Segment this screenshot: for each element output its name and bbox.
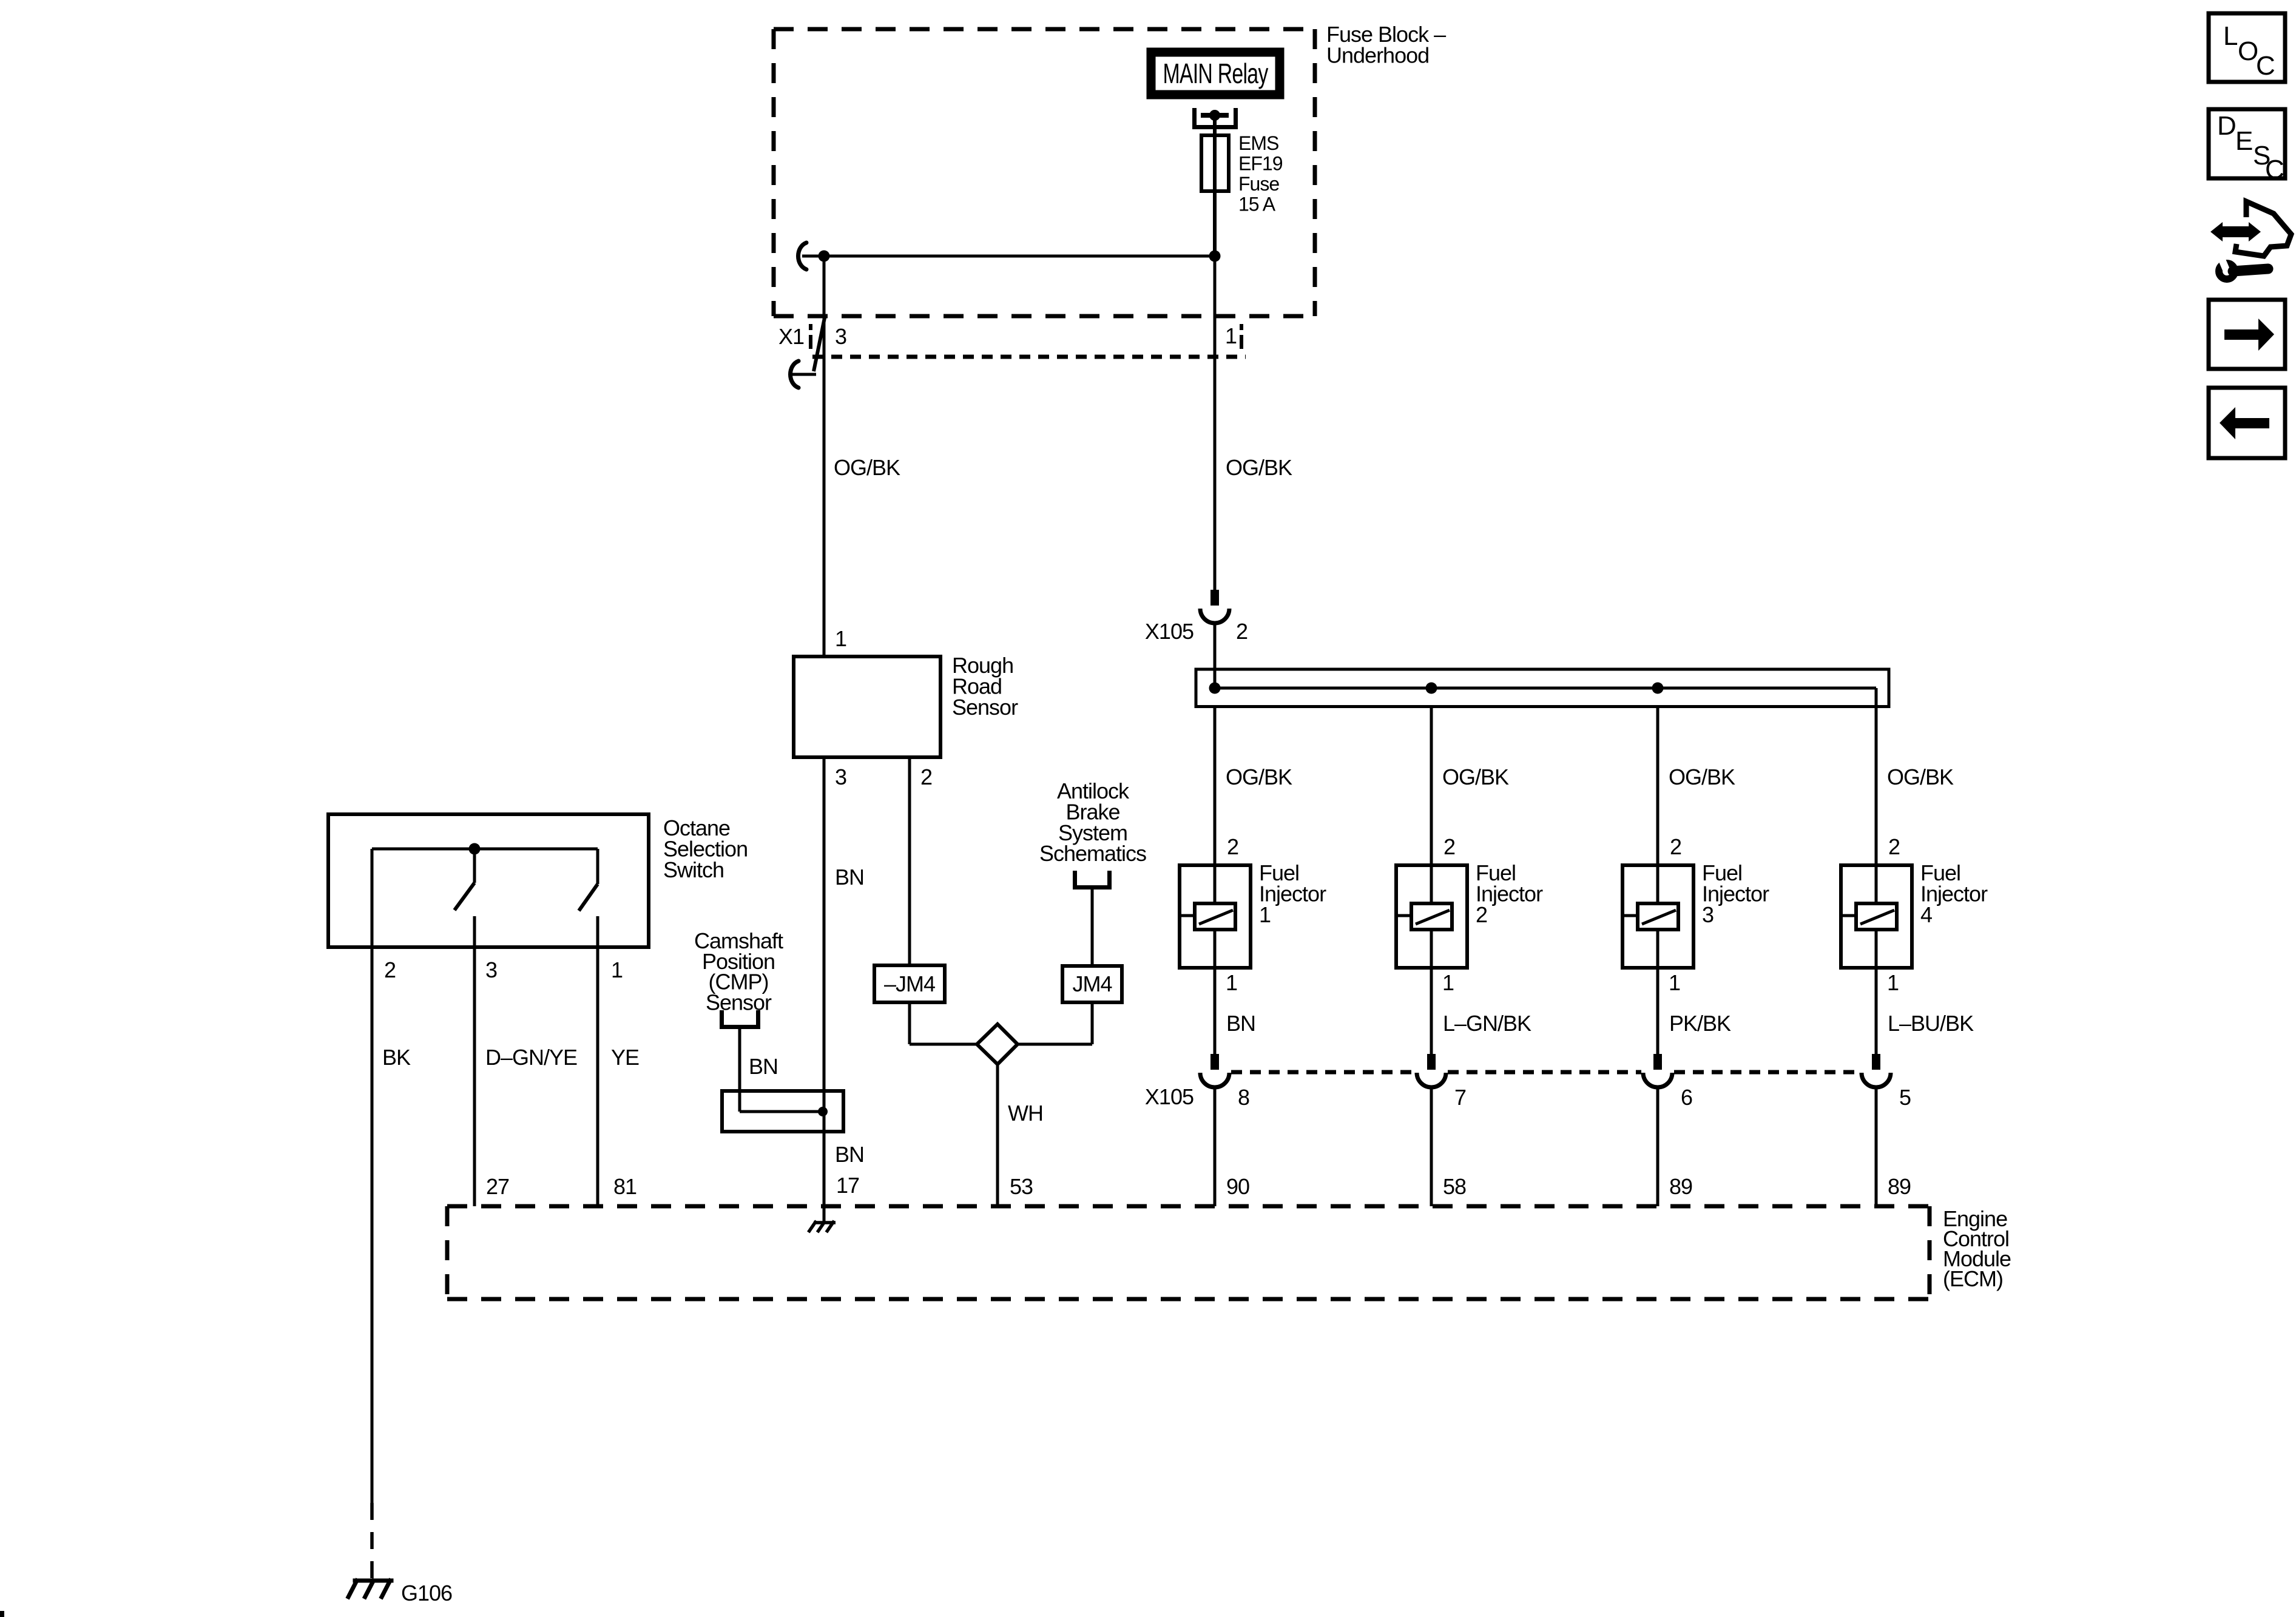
svg-text:OG/BK: OG/BK — [1226, 765, 1292, 789]
svg-text:89: 89 — [1888, 1174, 1911, 1199]
svg-text:3: 3 — [835, 765, 846, 789]
svg-text:EMS: EMS — [1238, 132, 1278, 154]
svg-text:X1: X1 — [778, 324, 804, 349]
svg-text:7: 7 — [1454, 1085, 1466, 1110]
svg-text:YE: YE — [611, 1045, 639, 1070]
svg-text:2: 2 — [384, 957, 396, 982]
svg-text:Sensor: Sensor — [706, 990, 772, 1014]
svg-text:L: L — [2223, 21, 2238, 51]
svg-text:OG/BK: OG/BK — [1226, 455, 1292, 480]
svg-text:89: 89 — [1669, 1174, 1692, 1199]
svg-text:17: 17 — [836, 1173, 859, 1198]
svg-text:6: 6 — [1681, 1085, 1692, 1110]
svg-text:OG/BK: OG/BK — [1669, 765, 1735, 789]
svg-text:C: C — [2265, 155, 2284, 184]
svg-text:O: O — [2238, 36, 2258, 66]
svg-text:2: 2 — [1443, 834, 1455, 859]
svg-text:C: C — [2256, 51, 2275, 81]
svg-text:5: 5 — [1899, 1085, 1911, 1110]
svg-text:JM4: JM4 — [1072, 971, 1112, 996]
svg-text:Sensor: Sensor — [952, 695, 1018, 720]
svg-text:4: 4 — [1920, 902, 1932, 927]
svg-text:OG/BK: OG/BK — [1442, 765, 1509, 789]
svg-text:3: 3 — [1702, 902, 1714, 927]
svg-text:–JM4: –JM4 — [884, 971, 935, 996]
svg-text:2: 2 — [920, 765, 932, 789]
svg-text:X105: X105 — [1145, 1084, 1194, 1109]
svg-text:1: 1 — [1442, 970, 1454, 995]
svg-text:1: 1 — [1225, 323, 1237, 348]
svg-text:X105: X105 — [1145, 619, 1194, 644]
svg-text:BK: BK — [382, 1045, 411, 1070]
svg-text:2: 2 — [1476, 902, 1487, 927]
svg-text:D–GN/YE: D–GN/YE — [485, 1045, 577, 1070]
svg-text:OG/BK: OG/BK — [834, 455, 900, 480]
svg-text:PK/BK: PK/BK — [1669, 1011, 1731, 1036]
svg-text:2: 2 — [1236, 619, 1248, 644]
svg-text:2: 2 — [1670, 834, 1681, 859]
svg-text:3: 3 — [485, 957, 497, 982]
svg-text:WH: WH — [1008, 1101, 1043, 1126]
svg-text:1: 1 — [1669, 970, 1680, 995]
svg-text:Fuse: Fuse — [1238, 173, 1279, 195]
svg-text:2: 2 — [1227, 834, 1238, 859]
svg-text:MAIN Relay: MAIN Relay — [1163, 58, 1269, 89]
svg-text:3: 3 — [835, 324, 846, 349]
svg-text:D: D — [2217, 111, 2236, 141]
svg-text:81: 81 — [613, 1174, 636, 1199]
svg-text:(ECM): (ECM) — [1943, 1266, 2003, 1291]
svg-text:1: 1 — [1259, 902, 1271, 927]
svg-text:1: 1 — [1226, 970, 1237, 995]
svg-text:BN: BN — [835, 865, 864, 890]
svg-text:G106: G106 — [401, 1581, 452, 1605]
svg-text:15 A: 15 A — [1238, 194, 1276, 215]
svg-text:BN: BN — [1226, 1011, 1255, 1036]
svg-text:E: E — [2235, 126, 2252, 156]
svg-text:27: 27 — [486, 1174, 509, 1199]
svg-text:L–BU/BK: L–BU/BK — [1888, 1011, 1974, 1036]
svg-text:EF19: EF19 — [1238, 153, 1283, 175]
svg-text:90: 90 — [1226, 1174, 1249, 1199]
svg-text:BN: BN — [835, 1142, 864, 1167]
svg-text:OG/BK: OG/BK — [1887, 765, 1954, 789]
svg-text:1: 1 — [835, 626, 846, 651]
svg-text:2: 2 — [1888, 834, 1900, 859]
svg-text:Underhood: Underhood — [1326, 42, 1429, 67]
svg-text:Switch: Switch — [663, 857, 724, 882]
svg-text:53: 53 — [1010, 1174, 1033, 1199]
svg-text:Schematics: Schematics — [1039, 841, 1146, 866]
svg-text:BN: BN — [749, 1054, 778, 1079]
svg-text:1: 1 — [611, 957, 623, 982]
svg-text:58: 58 — [1443, 1174, 1466, 1199]
svg-text:1: 1 — [1887, 970, 1899, 995]
svg-text:L–GN/BK: L–GN/BK — [1443, 1011, 1531, 1036]
svg-text:8: 8 — [1238, 1085, 1249, 1110]
